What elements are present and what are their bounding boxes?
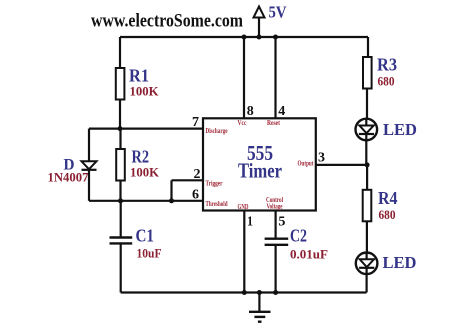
svg-text:5: 5 [278,214,285,229]
svg-text:LED: LED [383,120,417,139]
junction dot top rail pin8 [242,35,247,40]
wire right drop to R3 [367,37,369,58]
capacitor C1 [110,238,133,244]
svg-text:Discharge: Discharge [206,126,228,135]
5V supply arrow [254,7,265,38]
svg-text:0.01uF: 0.01uF [290,247,328,262]
wire pin 5 drop [275,211,277,239]
junction node R2 bottom [118,198,123,203]
wire LED1 bottom [365,140,367,165]
op-amp U1 555 timer box [203,118,316,210]
wire bottom rail [121,291,367,293]
junction node ground [257,290,262,295]
svg-text:R3: R3 [377,55,397,75]
ground [249,293,271,322]
svg-text:2: 2 [194,166,201,181]
svg-text:C1: C1 [136,226,155,246]
svg-text:7: 7 [192,114,199,129]
svg-text:Output: Output [298,159,314,168]
capacitor C2 [265,239,289,245]
wire R3 bottom [366,89,368,121]
wire top rail [120,36,368,38]
wire LED2 bottom [366,274,368,293]
junction node C2 bottom [273,290,278,295]
svg-text:680: 680 [378,74,395,89]
svg-text:www.electroSome.com: www.electroSome.com [91,12,244,32]
svg-text:1: 1 [247,214,253,229]
svg-text:R1: R1 [129,66,149,86]
svg-text:10uF: 10uF [137,246,162,261]
wire C2 bottom [275,245,277,293]
svg-text:Vcc: Vcc [238,118,247,127]
junction node pin1 bottom [242,290,247,295]
svg-text:Timer: Timer [238,159,282,183]
svg-text:5V: 5V [269,3,287,22]
resistor R1 [116,68,125,100]
wire left drop to diode [88,129,90,162]
wire pin 8 drop [243,37,245,118]
wire pin 3 output [316,164,367,166]
svg-text:Trigger: Trigger [206,178,223,187]
svg-text:680: 680 [379,207,396,222]
svg-text:Reset: Reset [267,118,280,127]
LED D1 [356,119,378,141]
svg-text:R4: R4 [378,188,398,208]
wire to R4 [366,165,368,191]
svg-text:8: 8 [247,103,254,118]
svg-text:100K: 100K [130,165,160,180]
svg-text:3: 3 [318,150,325,165]
pin name Control Voltage [266,195,283,211]
svg-text:100K: 100K [130,84,160,99]
resistor R2 [116,149,125,181]
svg-text:1N4007: 1N4007 [48,170,89,185]
junction node output [365,162,370,167]
junction dot top rail pin4 [273,35,278,40]
wire pin 2 branch [172,180,204,201]
junction node pin2 branch [169,198,174,203]
wire C1 top [120,201,122,238]
svg-text:LED: LED [383,253,417,272]
svg-text:Threshold: Threshold [206,199,229,208]
wire R2 bottom [119,181,121,201]
wire left drop to R1 [119,37,121,69]
svg-text:6: 6 [192,187,199,202]
wire pin 6 run [89,200,203,202]
resistor R3 [363,57,372,89]
svg-text:4: 4 [278,103,285,118]
junction node R1 bottom [118,126,123,131]
svg-text:GND: GND [238,202,249,211]
wire R4 bottom [366,221,368,253]
resistor R4 [363,190,372,222]
wire pin 7 run [89,128,203,130]
wire pin 4 drop [274,37,276,118]
wire pin 1 drop [243,211,245,293]
LED D2 [356,252,378,274]
wire R2 top [119,129,121,150]
diode D 1N4007 [82,161,97,170]
junction dot top rail 5V [257,35,262,40]
svg-text:R2: R2 [132,147,150,167]
wire diode bottom [88,170,90,201]
svg-text:C2: C2 [290,226,307,246]
svg-text:Voltage: Voltage [267,202,283,211]
wire R1 bottom [119,100,121,129]
wire C1 bottom [120,243,122,292]
